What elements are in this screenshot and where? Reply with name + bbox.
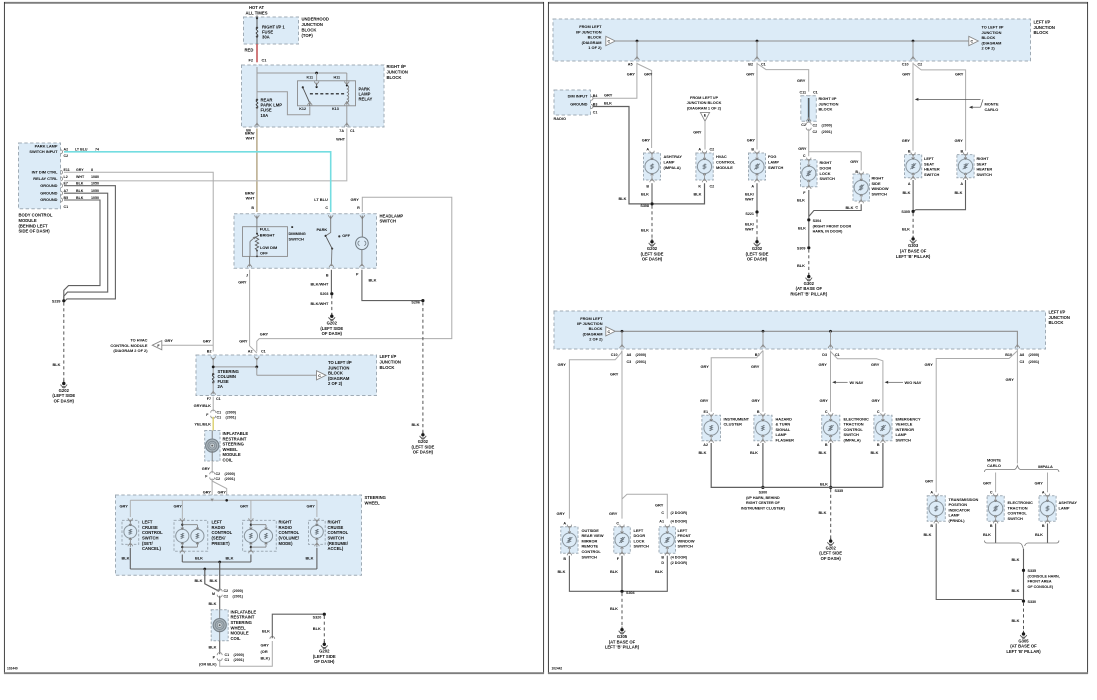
svg-text:C: C	[825, 410, 828, 414]
svg-text:C1: C1	[761, 63, 766, 67]
svg-text:STEERING: STEERING	[223, 442, 244, 447]
svg-text:S320: S320	[313, 615, 322, 619]
splice S206	[411, 299, 424, 305]
svg-text:G202: G202	[647, 246, 658, 251]
svg-text:GRY: GRY	[120, 503, 129, 508]
svg-text:GROUND: GROUND	[40, 183, 57, 188]
svg-text:GRY: GRY	[902, 138, 911, 143]
svg-text:HAZARD: HAZARD	[776, 416, 793, 421]
svg-text:MONTE: MONTE	[987, 458, 1001, 463]
svg-text:C2: C2	[64, 154, 69, 158]
svg-text:G202: G202	[327, 321, 338, 326]
svg-text:B: B	[1042, 524, 1045, 528]
svg-text:GRY: GRY	[260, 331, 269, 336]
svg-text:WINDOW: WINDOW	[678, 538, 695, 543]
svg-text:A: A	[960, 182, 963, 186]
svg-text:GRY: GRY	[609, 511, 618, 516]
svg-text:E1: E1	[703, 410, 708, 414]
radio DIM INPUT / GROUND box	[554, 90, 598, 121]
svg-text:A2: A2	[703, 443, 708, 447]
svg-text:S309: S309	[797, 246, 806, 250]
svg-text:CANCEL): CANCEL)	[142, 546, 161, 551]
svg-text:10A: 10A	[261, 113, 269, 118]
svg-text:BLOCK: BLOCK	[819, 107, 833, 112]
fuse REAR PARK LMP FUSE 10A	[256, 98, 282, 128]
page link arrow FROM LEFT I/P JUNCTION BLOCK (DIAGRAM 2 OF 2) lower	[577, 316, 615, 342]
lamp ASHTRAY LAMP (IMPALA)	[644, 147, 683, 188]
svg-text:STEERING: STEERING	[231, 620, 252, 625]
switch FOG LAMP SWITCH	[749, 147, 784, 188]
svg-text:BLK: BLK	[699, 450, 707, 455]
svg-text:BLK: BLK	[924, 532, 932, 537]
svg-text:RESTRAINT: RESTRAINT	[231, 615, 255, 620]
svg-text:OUTSIDE: OUTSIDE	[582, 528, 600, 533]
svg-text:(2001): (2001)	[1029, 360, 1040, 364]
svg-text:BLK: BLK	[226, 556, 234, 561]
svg-text:C3: C3	[627, 360, 632, 364]
svg-text:(AT BASE OF: (AT BASE OF	[1010, 644, 1037, 649]
svg-text:HEATER: HEATER	[977, 167, 993, 172]
svg-text:LAMP: LAMP	[1059, 505, 1070, 510]
headlamp switch indicator lamp	[356, 216, 369, 267]
wire: BLK emergency switch to ground bus	[871, 443, 883, 487]
svg-text:SWITCH: SWITCH	[289, 237, 305, 242]
fuse RIGHT I/P 1 FUSE 30A	[256, 25, 286, 40]
headlamp park/off switch	[317, 216, 351, 267]
svg-text:BODY CONTROL: BODY CONTROL	[19, 213, 53, 218]
svg-text:B3: B3	[593, 102, 598, 106]
svg-text:ELECTRONIC: ELECTRONIC	[844, 416, 869, 421]
wire: relay switch to rear park lamp fuse	[257, 92, 310, 115]
wire: BLK traction switch to splice S335i	[819, 443, 831, 486]
wire: BLK dashed splice S206 to ground G202	[412, 302, 423, 432]
wire: BLK/WHT dashed to ground G202 (dash)	[311, 295, 332, 313]
svg-text:BLK: BLK	[694, 191, 702, 196]
svg-text:S300: S300	[759, 491, 768, 495]
svg-text:OFF: OFF	[260, 251, 268, 256]
svg-text:C1: C1	[350, 129, 355, 133]
svg-text:D3: D3	[822, 353, 827, 357]
headlamp switch exit pins J / B / P	[246, 263, 364, 278]
svg-text:REMOTE: REMOTE	[582, 544, 599, 549]
connector C2 (2000) / C2 (2001) steering wheel feed	[205, 472, 235, 482]
svg-text:SWITCH: SWITCH	[924, 172, 940, 177]
merge brace for console grounds	[985, 541, 1059, 551]
svg-text:LAMP: LAMP	[896, 432, 907, 437]
wire: BLK hazard flasher to splice S300	[750, 443, 763, 486]
svg-text:SWITCH INPUT: SWITCH INPUT	[29, 149, 58, 154]
svg-text:GRY: GRY	[701, 364, 710, 369]
svg-text:GRY: GRY	[642, 138, 651, 143]
svg-text:GRY: GRY	[557, 511, 566, 516]
svg-text:(2000): (2000)	[233, 589, 244, 593]
connector C2 (2000)/C2 (2001) steering wheel return	[212, 589, 244, 599]
svg-text:FULL: FULL	[260, 227, 271, 232]
splice S305 (seat heaters)	[901, 210, 914, 214]
svg-text:ELECTRONIC: ELECTRONIC	[1008, 500, 1033, 505]
svg-text:BRIGHT: BRIGHT	[260, 232, 276, 237]
svg-text:G303: G303	[908, 243, 919, 248]
svg-text:C2: C2	[216, 472, 221, 476]
svg-text:BLK: BLK	[369, 277, 377, 282]
wire: GRY tap to HVAC control module arrow	[162, 338, 214, 345]
svg-text:OF DASH): OF DASH)	[322, 331, 343, 336]
svg-text:MODULE: MODULE	[231, 631, 249, 636]
wire: BLK ashtray lamp (console) to brace	[1035, 524, 1048, 544]
svg-text:BLK: BLK	[604, 101, 612, 106]
wire: BLK ashtray lamp to splice S308	[641, 183, 652, 202]
wire: BLK mirror switch to splice S304 (left)	[558, 556, 621, 592]
svg-text:SWITCH: SWITCH	[820, 176, 836, 181]
svg-text:W/O NAV: W/O NAV	[905, 380, 922, 385]
svg-text:A: A	[646, 147, 649, 151]
svg-text:B: B	[757, 410, 760, 414]
svg-text:B: B	[990, 524, 993, 528]
svg-text:SWITCH: SWITCH	[872, 192, 888, 197]
svg-text:BLK: BLK	[619, 196, 627, 201]
wire: GRY to right door lock switch and window switch branch	[798, 129, 861, 171]
svg-text:HEADLAMP: HEADLAMP	[380, 213, 404, 218]
svg-text:LEFT: LEFT	[924, 156, 934, 161]
switch RIGHT SIDE WINDOW SWITCH	[853, 170, 889, 210]
svg-text:EMERGENCY: EMERGENCY	[896, 416, 921, 421]
page link arrow TO LEFT I/P JUNCTION BLOCK (DIAGRAM 2 OF 2)	[969, 25, 1004, 51]
svg-text:OF DASH): OF DASH)	[314, 659, 335, 664]
svg-text:BLK: BLK	[610, 569, 618, 574]
page 1 frame (left diagram sheet)	[4, 2, 544, 674]
splice S203	[320, 292, 334, 296]
svg-text:(AT BASE OF: (AT BASE OF	[900, 249, 927, 254]
svg-text:RED: RED	[245, 48, 254, 53]
svg-text:1 OF 2): 1 OF 2)	[588, 45, 602, 50]
svg-text:S239: S239	[52, 299, 61, 303]
ground G202 below headlamp switch	[320, 313, 343, 336]
svg-text:ALL TIMES: ALL TIMES	[245, 10, 267, 15]
underhood junction block box	[244, 16, 329, 44]
svg-text:(AT BASE OF: (AT BASE OF	[609, 639, 636, 644]
svg-text:GRY: GRY	[239, 339, 248, 344]
svg-text:GRY: GRY	[747, 138, 756, 143]
svg-text:C: C	[325, 206, 328, 210]
wire: BLK dashed to ground G302	[797, 249, 809, 274]
svg-text:BLK: BLK	[1012, 557, 1020, 562]
svg-text:POSITION: POSITION	[949, 502, 968, 507]
wire: GRY exit A5 branch to ashtray lamp (impala)	[637, 64, 653, 149]
wire: GRY exit A5 to radio dim input	[593, 63, 637, 99]
wire: BLK left seat heater to splice S305	[903, 180, 914, 210]
svg-text:GRY: GRY	[850, 159, 859, 164]
svg-text:C2: C2	[710, 184, 715, 188]
junction block internal bus and steering column fuse	[212, 360, 317, 375]
svg-text:(I/P HARN, BEHIND: (I/P HARN, BEHIND	[746, 496, 780, 500]
option pointer MONTE CARLO (seat heaters)	[915, 98, 999, 112]
steering wheel feed bus (GRY)	[120, 499, 317, 519]
ground G202 (left side of dash) lower right	[313, 641, 336, 664]
svg-text:(DIAGRAM 2 OF 2): (DIAGRAM 2 OF 2)	[113, 348, 148, 353]
wire: BLK dashed S308 to ground G202	[641, 206, 652, 240]
svg-text:DIMMING: DIMMING	[289, 231, 306, 236]
svg-text:LEFT 'B' PILLAR): LEFT 'B' PILLAR)	[896, 254, 931, 259]
svg-text:B: B	[661, 556, 664, 560]
switch LEFT SEAT HEATER SWITCH	[905, 152, 940, 185]
svg-text:CONTROL: CONTROL	[142, 530, 163, 535]
wire: BLK dashed S335 to ground G202	[819, 489, 831, 539]
svg-text:GRY: GRY	[627, 72, 636, 77]
svg-text:LAMP: LAMP	[949, 513, 960, 518]
svg-text:(2 DOOR): (2 DOOR)	[671, 561, 688, 565]
svg-text:A8: A8	[627, 353, 632, 357]
wire: BLK/WHT headlamp B output to splice S203	[311, 270, 332, 293]
svg-text:OF DASH): OF DASH)	[54, 398, 75, 403]
svg-text:GRY: GRY	[655, 503, 664, 508]
connector C2 (2000)/C2 (2001) right I/P junction block	[806, 122, 832, 134]
svg-text:(2000): (2000)	[225, 472, 236, 476]
svg-text:C2: C2	[813, 130, 818, 134]
inflatable restraint steering wheel module coil (lower clockspring)	[211, 609, 256, 641]
svg-text:SWITCH: SWITCH	[380, 219, 397, 224]
switch RIGHT RADIO CONTROL (VOLUME/MODE)	[243, 518, 300, 553]
svg-text:VEHICLE: VEHICLE	[896, 422, 913, 427]
page link arrow TO HVAC CONTROL MODULE	[110, 338, 161, 354]
wire: BLK dashed to ground G305	[610, 593, 622, 628]
svg-text:8: 8	[91, 168, 93, 172]
svg-text:GRY: GRY	[1006, 377, 1015, 382]
svg-text:B: B	[251, 206, 254, 210]
svg-text:(CONSOLE HARN,: (CONSOLE HARN,	[1028, 574, 1060, 578]
svg-text:G202: G202	[826, 545, 837, 550]
svg-text:HEATER: HEATER	[924, 167, 940, 172]
svg-text:LT BLU: LT BLU	[75, 148, 88, 152]
wire: GRY exit B2 to fog lamp switch	[746, 63, 757, 150]
svg-text:(LEFT SIDE: (LEFT SIDE	[313, 654, 336, 659]
svg-text:SWITCH: SWITCH	[678, 544, 694, 549]
block exit pins B6 and 7A/C1	[246, 122, 354, 133]
svg-text:FOG: FOG	[768, 154, 776, 159]
svg-text:RIGHT: RIGHT	[872, 176, 885, 181]
svg-text:S335: S335	[1028, 569, 1037, 573]
svg-text:GRY/BLK: GRY/BLK	[194, 403, 212, 408]
lamp ASHTRAY LAMP (console)	[1039, 491, 1077, 528]
svg-text:S335: S335	[835, 489, 844, 493]
svg-text:C: C	[990, 491, 993, 495]
svg-text:A5: A5	[628, 63, 633, 67]
svg-text:(4 DOOR): (4 DOOR)	[671, 556, 688, 560]
switch LEFT CRUISE CONTROL SWITCH (SET/CANCEL)	[122, 518, 163, 551]
svg-text:30A: 30A	[262, 35, 270, 40]
svg-text:G202: G202	[752, 246, 763, 251]
svg-text:(2000): (2000)	[1029, 353, 1040, 357]
svg-text:RIGHT: RIGHT	[328, 520, 341, 525]
svg-text:(LEFT SIDE: (LEFT SIDE	[819, 551, 842, 556]
svg-text:SEAT: SEAT	[977, 161, 988, 166]
ground G303 (at base of left B pillar)	[896, 236, 931, 259]
svg-text:TRACTION: TRACTION	[844, 422, 864, 427]
svg-text:GRY: GRY	[693, 129, 702, 134]
svg-text:(IMPALA): (IMPALA)	[664, 165, 682, 170]
svg-text:G305: G305	[617, 634, 628, 639]
svg-text:BLK: BLK	[76, 182, 84, 186]
ground G202 below fog lamp switch	[746, 239, 769, 262]
svg-text:BLK: BLK	[797, 263, 805, 268]
svg-text:RIGHT: RIGHT	[279, 520, 292, 525]
svg-text:2 OF 2): 2 OF 2)	[328, 381, 343, 386]
svg-text:BLK: BLK	[641, 227, 649, 232]
svg-text:HVAC: HVAC	[716, 154, 727, 159]
svg-text:K: K	[698, 184, 701, 188]
page link arrow FROM LEFT I/P JUNCTION BLOCK to HVAC	[687, 95, 722, 121]
svg-text:GRY: GRY	[820, 398, 829, 403]
svg-text:STEERING: STEERING	[365, 495, 386, 500]
wire: BLK headlamp lamp output P to splice S206	[362, 270, 422, 301]
svg-text:C: C	[877, 410, 880, 414]
svg-text:C2: C2	[813, 123, 818, 127]
svg-text:C10: C10	[611, 353, 618, 357]
svg-text:K13: K13	[332, 107, 339, 111]
wire: BLK dashed S330 to ground G305	[1012, 603, 1024, 632]
svg-text:ACCEL): ACCEL)	[328, 546, 344, 551]
svg-text:GRY: GRY	[165, 338, 174, 343]
splice S330	[1022, 600, 1036, 604]
option pointer W/O NAV	[885, 380, 922, 385]
wire: BLK BCM ground A7 to splice	[64, 193, 108, 301]
right I/P junction block box	[242, 64, 408, 127]
svg-text:SWITCH: SWITCH	[896, 438, 912, 443]
splice S335 (console harness)	[1022, 569, 1060, 589]
svg-text:LEFT: LEFT	[142, 520, 153, 525]
svg-text:RIGHT CENTER OF: RIGHT CENTER OF	[746, 501, 781, 505]
wire: GRY exit D3 to traction control switch (impala)	[819, 351, 831, 412]
switch LEFT DOOR LOCK SWITCH	[614, 521, 649, 560]
svg-text:(2000): (2000)	[636, 353, 647, 357]
svg-text:A7: A7	[64, 189, 69, 193]
svg-text:BLK: BLK	[262, 628, 270, 633]
svg-text:GRY: GRY	[240, 503, 249, 508]
svg-text:A: A	[1042, 491, 1045, 495]
module EMERGENCY VEHICLE INTERIOR LAMP SWITCH	[874, 410, 921, 447]
svg-text:BLK: BLK	[1012, 618, 1020, 623]
svg-text:GRY: GRY	[76, 168, 84, 172]
svg-text:INFLATABLE: INFLATABLE	[223, 431, 249, 436]
svg-text:LEFT: LEFT	[678, 528, 688, 533]
svg-text:GRY: GRY	[174, 503, 183, 508]
steering wheel box	[116, 495, 386, 575]
svg-text:BLK: BLK	[558, 569, 566, 574]
svg-text:BLK: BLK	[76, 196, 84, 200]
svg-text:GRY: GRY	[955, 138, 964, 143]
svg-text:MIRROR: MIRROR	[582, 538, 598, 543]
svg-text:BLK: BLK	[122, 556, 130, 561]
wire: BLK to lower clockspring	[209, 596, 220, 610]
svg-text:(SET/: (SET/	[142, 541, 154, 546]
wire: battery feed into fuse	[256, 16, 258, 28]
svg-text:SWITCH: SWITCH	[328, 536, 345, 541]
svg-text:C3: C3	[1020, 360, 1025, 364]
svg-text:TO HVAC: TO HVAC	[130, 338, 147, 343]
svg-text:BLOCK: BLOCK	[1049, 320, 1064, 325]
wire below fuse to block edge	[256, 37, 258, 44]
svg-text:C10: C10	[902, 63, 909, 67]
svg-text:LEFT: LEFT	[212, 520, 223, 525]
svg-text:RADIO: RADIO	[212, 525, 226, 530]
svg-text:JUNCTION: JUNCTION	[302, 22, 323, 27]
svg-text:(AT BASE OF: (AT BASE OF	[796, 286, 823, 291]
svg-text:W/ NAV: W/ NAV	[850, 380, 864, 385]
svg-text:SEAT: SEAT	[924, 161, 935, 166]
ground G202 below ashtray lamp	[641, 239, 664, 262]
svg-text:L2: L2	[64, 175, 68, 179]
svg-text:(VOLUME/: (VOLUME/	[279, 536, 300, 541]
svg-text:GRY: GRY	[871, 362, 880, 367]
wire: GRY interior dim control BCM to left I/P junction block	[64, 172, 213, 351]
svg-text:LOCK: LOCK	[820, 171, 831, 176]
splice S335 (instrument panel)	[829, 486, 843, 493]
svg-text:K12: K12	[299, 107, 306, 111]
svg-text:FLASHER: FLASHER	[776, 438, 795, 443]
svg-text:BLK: BLK	[903, 190, 911, 195]
junction block bus (page 2 top)	[615, 40, 969, 67]
ground G202 (left side of dash)	[52, 380, 75, 403]
svg-text:GRY: GRY	[203, 339, 212, 344]
svg-text:A2: A2	[248, 350, 253, 354]
svg-text:INSTRUMENT: INSTRUMENT	[724, 416, 750, 421]
svg-text:C: C	[607, 40, 610, 44]
svg-text:G202: G202	[319, 649, 330, 654]
svg-text:HARN, IN DOOR): HARN, IN DOOR)	[813, 230, 843, 234]
wire: RED F2-C1	[245, 44, 258, 62]
svg-text:(2001): (2001)	[822, 130, 833, 134]
svg-text:G302: G302	[804, 281, 815, 286]
svg-text:(PRNDL): (PRNDL)	[949, 518, 966, 523]
svg-text:RADIO: RADIO	[554, 116, 567, 121]
wire: BLK dashed S305 to ground G303	[902, 213, 913, 237]
svg-text:SIGNAL: SIGNAL	[776, 427, 791, 432]
wire: LT BLU park lamp switch input (BCM to headlamp switch C)	[64, 152, 331, 212]
svg-text:(OR BLK): (OR BLK)	[199, 661, 217, 666]
inflatable restraint steering wheel module coil (upper clockspring)	[205, 431, 249, 463]
svg-text:A: A	[698, 147, 701, 151]
module INSTRUMENT CLUSTER	[702, 410, 750, 447]
svg-text:GRY: GRY	[1035, 480, 1044, 485]
svg-text:BLOCK: BLOCK	[1034, 30, 1049, 35]
svg-text:LOCK: LOCK	[634, 538, 645, 543]
switch RIGHT CRUISE CONTROL SWITCH (RESUME/ACCEL)	[309, 518, 349, 551]
svg-text:B: B	[825, 443, 828, 447]
svg-text:INDICATOR: INDICATOR	[949, 507, 970, 512]
svg-text:GRY: GRY	[752, 398, 761, 403]
svg-text:BLOCK: BLOCK	[380, 365, 395, 370]
svg-text:C11: C11	[799, 90, 806, 94]
svg-text:OF DASH): OF DASH)	[747, 257, 768, 262]
svg-text:E7: E7	[64, 182, 68, 186]
svg-text:B: B	[908, 149, 911, 153]
svg-text:BLK: BLK	[819, 510, 827, 515]
svg-text:GRY: GRY	[700, 398, 709, 403]
wire: BLK traction switch (console) to brace	[983, 524, 996, 544]
svg-text:GRY: GRY	[644, 72, 653, 77]
svg-text:A: A	[563, 521, 566, 525]
svg-text:JUNCTION: JUNCTION	[380, 359, 401, 364]
wire: BLK hvac ground to splice S308	[654, 183, 705, 204]
svg-text:C1: C1	[261, 350, 266, 354]
option brace MONTE CARLO / IMPALA (console)	[985, 458, 1059, 473]
svg-text:WHT: WHT	[745, 197, 754, 202]
svg-text:A: A	[908, 182, 911, 186]
svg-text:GRY: GRY	[798, 146, 807, 151]
svg-text:BLK: BLK	[846, 205, 854, 210]
wire: BLK dashed S320 to ground G202	[313, 616, 325, 642]
svg-text:RADIO: RADIO	[279, 525, 293, 530]
svg-text:B: B	[326, 274, 329, 278]
